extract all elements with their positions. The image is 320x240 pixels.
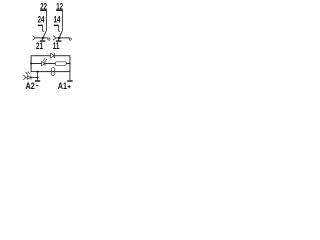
svg-text:11: 11 (53, 41, 60, 51)
terminal bar 21 (40, 40, 46, 41)
link end loop pole 2 (69, 38, 71, 40)
actuator fork pole 2 (53, 36, 56, 41)
svg-text:24: 24 (38, 14, 45, 24)
movable contact arm pole 1 (42, 30, 47, 40)
resistor R1 (55, 62, 66, 66)
plus sign (68, 85, 71, 88)
svg-text:A2: A2 (26, 81, 35, 91)
movable contact arm pole 2 (58, 30, 62, 40)
wire from terminal 22 (45, 11, 47, 31)
LED U1 in box (42, 61, 45, 65)
terminal bar 12 (56, 10, 63, 11)
wire from terminal 14 with open-contact hook (58, 26, 60, 32)
junction dot left rail (30, 63, 32, 65)
actuator fork pole 1 (33, 36, 36, 41)
junction dot A2 top (37, 71, 39, 73)
wire from terminal 24 with open-contact hook (42, 26, 44, 32)
plug-in link symbol on box bottom edge (51, 68, 55, 72)
junction dot A2 mid (37, 77, 39, 79)
actuator fork LED branch (23, 75, 26, 80)
terminal bar 24 (38, 25, 43, 26)
LED D2 branch wire (26, 77, 38, 79)
terminal bar A1 (67, 80, 72, 81)
mechanical link line pole 2 (56, 37, 69, 39)
terminal bar 14 (54, 25, 59, 26)
svg-text:21: 21 (36, 41, 43, 51)
wire from terminal 12 (61, 11, 63, 31)
pivot junction dot pole 1 (42, 37, 44, 39)
terminal bar A2 (35, 80, 40, 81)
wire A1 drop (69, 72, 71, 81)
LED D2 (27, 76, 30, 80)
diode D1 on box top edge (51, 53, 54, 58)
svg-text:A1: A1 (58, 81, 67, 91)
link end loop pole 1 (48, 38, 50, 40)
svg-text:14: 14 (54, 14, 61, 24)
mechanical link line pole 1 (35, 37, 48, 39)
coil module box (31, 56, 70, 72)
junction dot right rail (69, 63, 71, 65)
wire A2 drop (37, 72, 39, 81)
minus sign (36, 85, 38, 86)
inner wire (31, 63, 70, 65)
terminal bar 22 (40, 10, 47, 11)
terminal bar 11 (56, 40, 62, 41)
pivot junction dot pole 2 (58, 37, 60, 39)
